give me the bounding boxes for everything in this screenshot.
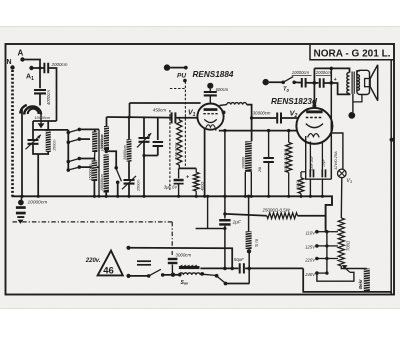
wire contact1 to coil A xyxy=(79,128,99,130)
svg-text:3000cm: 3000cm xyxy=(176,253,192,258)
svg-text:50μF: 50μF xyxy=(234,257,244,262)
svg-text:V3: V3 xyxy=(346,178,353,184)
speaker magnet xyxy=(357,70,370,94)
PU lead node xyxy=(183,79,187,83)
switch contact (tap) xyxy=(114,166,118,170)
V2 anode xyxy=(306,110,322,113)
svg-text:16μF: 16μF xyxy=(321,158,325,167)
choke Sav xyxy=(179,266,200,269)
capacitor 4000cm xyxy=(34,90,46,93)
svg-text:600cm: 600cm xyxy=(216,87,229,92)
node xyxy=(287,129,290,132)
output transformer xyxy=(347,73,350,94)
V2 anode feed xyxy=(313,83,315,108)
svg-text:RENS1823d: RENS1823d xyxy=(271,97,318,106)
ground bus xyxy=(12,196,333,231)
svg-text:PU: PU xyxy=(177,73,186,80)
svg-text:2μF: 2μF xyxy=(232,220,242,226)
screen feed wire xyxy=(223,212,226,215)
tuning capacitor VC2 xyxy=(143,118,145,138)
mains live wire xyxy=(200,267,238,269)
svg-text:20t: 20t xyxy=(258,166,262,173)
svg-text:250cm: 250cm xyxy=(136,180,140,192)
svg-text:T0: T0 xyxy=(283,87,290,93)
wire xyxy=(32,121,34,140)
wire 2uF down xyxy=(224,226,226,269)
svg-text:30000cm: 30000cm xyxy=(253,111,271,116)
title box xyxy=(310,45,394,60)
wire coil to trimmer xyxy=(128,162,130,180)
bias resistor 400Ω xyxy=(195,168,197,172)
AC symbol xyxy=(137,260,151,262)
tap column wire xyxy=(326,232,328,273)
grid resistor 2MΩ xyxy=(178,118,180,120)
svg-text:50000cm: 50000cm xyxy=(100,134,104,149)
node xyxy=(267,129,270,132)
wire cap to V2 grid xyxy=(282,117,298,119)
box capacitor 1 xyxy=(310,169,313,177)
capacitor 20000cm xyxy=(268,131,270,158)
svg-text:125V: 125V xyxy=(305,245,316,250)
tube V2 xyxy=(296,108,332,144)
wire xyxy=(294,81,301,83)
node A/A1 junction xyxy=(38,66,41,69)
svg-text:400Ω: 400Ω xyxy=(201,182,205,191)
wire box to bus xyxy=(309,179,311,196)
capacitor 10000cm xyxy=(302,78,306,88)
wire coil to bus xyxy=(105,193,107,197)
capacitor 2uF xyxy=(219,219,230,222)
wire resistor to ballast xyxy=(341,266,367,269)
svg-text:NORA - G 201 L.: NORA - G 201 L. xyxy=(314,48,391,59)
coil A 100000cm xyxy=(94,129,96,131)
mains wire top xyxy=(126,246,130,250)
svg-text:30000cm: 30000cm xyxy=(123,145,127,160)
svg-text:700Ω: 700Ω xyxy=(346,240,351,251)
node xyxy=(20,195,23,198)
grid wire to V1 xyxy=(175,117,197,119)
V1 anode xyxy=(204,108,218,111)
wire cathode rail drop xyxy=(224,131,226,219)
wire cap to tuner xyxy=(49,68,57,121)
switch contact 4 xyxy=(67,168,71,172)
V1 cathode xyxy=(204,119,216,122)
resistor 25000Ω-0.5W xyxy=(267,213,298,219)
svg-text:Sav: Sav xyxy=(181,280,189,286)
junction on right rail xyxy=(390,138,394,142)
wire tap to contact xyxy=(106,151,116,168)
coil B 150000cm xyxy=(92,161,98,182)
box capacitor 2 xyxy=(322,169,325,177)
capacitor 2000cm xyxy=(44,63,48,73)
switch contact 2 xyxy=(67,140,71,144)
V2 heater xyxy=(308,134,320,138)
block capacitor 10000cm xyxy=(21,196,23,200)
wiper tap wire xyxy=(317,272,354,281)
wire choke to bus xyxy=(244,172,246,197)
svg-text:46: 46 xyxy=(103,265,114,276)
coil arrow to tuned circuit xyxy=(40,115,42,124)
antenna coupling coil xyxy=(24,107,41,115)
wire tube pin to cap xyxy=(309,142,311,170)
wire xyxy=(306,82,313,84)
svg-text:25000Ω-0.5W: 25000Ω-0.5W xyxy=(262,208,291,213)
resistor 700Ω xyxy=(338,218,344,266)
svg-text:Bekr: Bekr xyxy=(358,279,363,289)
wire switch rail xyxy=(98,129,100,196)
V1 top cap terminal xyxy=(207,83,213,89)
wire xyxy=(33,144,49,154)
node coil tap xyxy=(105,150,109,154)
RF choke xyxy=(227,103,247,105)
wire lamp down xyxy=(340,178,343,218)
wire coil B to bus xyxy=(93,181,95,196)
svg-text:2MΩ-0.5W: 2MΩ-0.5W xyxy=(175,142,179,161)
wire contact4 stub xyxy=(79,166,99,168)
wire VC2 to bus xyxy=(143,142,145,196)
wire Sm down xyxy=(248,251,250,283)
wire resistor right xyxy=(298,215,326,217)
wire anode junction xyxy=(250,116,253,119)
selector arrow xyxy=(345,268,350,273)
speaker cone xyxy=(370,65,378,101)
anode rail wire xyxy=(330,68,332,179)
svg-text:220v.: 220v. xyxy=(85,258,101,264)
svg-text:RENS1884: RENS1884 xyxy=(193,70,234,79)
wire cap to tube xyxy=(209,95,211,104)
switch contact (Sav out) xyxy=(200,272,204,276)
antenna lead-in (hatched) xyxy=(11,70,14,196)
V1 pin stub xyxy=(215,128,217,131)
svg-text:S m: S m xyxy=(254,239,259,247)
V1 anode pin xyxy=(222,111,226,115)
field coil Sm xyxy=(248,196,250,231)
svg-text:+: + xyxy=(334,77,337,83)
tube V1 xyxy=(197,104,223,130)
chassis blob xyxy=(348,112,355,119)
wire choke down xyxy=(247,105,252,142)
node xyxy=(223,129,226,132)
wire bias xyxy=(179,167,197,169)
svg-text:N: N xyxy=(7,59,12,66)
wire anode to choke xyxy=(219,104,226,107)
svg-text:220V: 220V xyxy=(304,257,316,262)
coil 150cm xyxy=(47,121,49,130)
wire tube pin to cap 2 xyxy=(321,143,323,170)
svg-text:450cm: 450cm xyxy=(153,108,167,113)
svg-text:10000cm: 10000cm xyxy=(292,70,310,75)
svg-text:A: A xyxy=(18,49,24,58)
pickup PU terminal xyxy=(164,64,170,70)
secondary top wire xyxy=(357,71,360,75)
speaker voice coil xyxy=(365,79,371,87)
capacitor 2000cm (output) xyxy=(314,82,318,84)
svg-text:150000cm: 150000cm xyxy=(88,164,92,181)
switch T0 xyxy=(281,81,285,85)
V1 grid xyxy=(203,113,217,115)
switch contact 3 xyxy=(67,160,71,164)
switch contact 1 xyxy=(67,131,71,135)
V2 cathode xyxy=(306,124,323,128)
svg-text:3μF 6V: 3μF 6V xyxy=(164,185,179,190)
mains switch Sw xyxy=(147,274,151,278)
svg-text:100000cm: 100000cm xyxy=(100,174,104,191)
coil ground side wire xyxy=(21,109,23,196)
speaker link xyxy=(353,95,362,102)
wire y103 xyxy=(130,102,201,104)
coil 100000cm lower xyxy=(104,155,109,193)
resistor 6000Ω-0.25W xyxy=(288,131,290,143)
node xyxy=(223,195,226,198)
triangle 46 xyxy=(98,251,123,276)
V2 socket box xyxy=(306,136,332,179)
wire tuned circuit to bus xyxy=(37,154,39,196)
node xyxy=(37,195,40,198)
AF choke 100000 xyxy=(245,141,252,172)
svg-text:6000Ω-0.25W: 6000Ω-0.25W xyxy=(284,150,288,172)
secondary return xyxy=(352,94,354,113)
V1 cathode wire xyxy=(204,128,206,196)
node xyxy=(230,267,234,271)
svg-text:4000cm: 4000cm xyxy=(46,90,51,105)
border frame xyxy=(6,44,395,295)
shield line (dash-dot) xyxy=(13,221,173,223)
primary bottom wire xyxy=(331,83,349,94)
wire y103 drop xyxy=(129,103,131,117)
lamp V3 xyxy=(338,169,347,178)
wire down to 4000cm cap xyxy=(39,68,41,88)
wire xyxy=(196,228,225,230)
svg-text:600Ω: 600Ω xyxy=(296,181,300,190)
cathode line wire xyxy=(219,130,297,132)
svg-text:+: + xyxy=(186,175,189,181)
shield (dashed) xyxy=(169,110,171,190)
variable capacitor VC1 xyxy=(28,140,39,144)
svg-text:10000cm: 10000cm xyxy=(35,116,51,120)
wire to transformer xyxy=(324,82,331,84)
svg-text:150cm: 150cm xyxy=(53,140,57,151)
wire contact2 stub xyxy=(79,138,90,140)
wire A to cap xyxy=(23,60,41,69)
coil 30000cm xyxy=(128,117,130,139)
selector left wire xyxy=(303,268,391,292)
primary top wire xyxy=(314,68,349,72)
node Sm bottom xyxy=(247,249,251,253)
svg-text:10000cm: 10000cm xyxy=(28,200,48,206)
svg-text:110V: 110V xyxy=(306,231,317,236)
wire coil to switch xyxy=(33,129,68,131)
svg-text:2000cm: 2000cm xyxy=(51,62,68,67)
svg-text:70NF-3SF: 70NF-3SF xyxy=(310,155,314,172)
capacitor 30000cm xyxy=(277,113,281,124)
wire trimmer to bus xyxy=(128,184,130,196)
trimmer capacitor 250cm xyxy=(124,180,135,184)
svg-text:2000cm: 2000cm xyxy=(315,70,331,75)
capacitor 50uF xyxy=(240,263,244,273)
wire A1 to cap xyxy=(32,67,44,69)
wire coil A-B link xyxy=(93,152,95,161)
supply rail wire (right) xyxy=(390,60,392,294)
svg-text:12V/0.25A: 12V/0.25A xyxy=(333,151,338,170)
ballast Bekr xyxy=(364,269,370,292)
wire box to bus 2 xyxy=(321,179,323,196)
node anode junction xyxy=(313,81,317,85)
wire contact to bus xyxy=(117,182,119,196)
wire stub xyxy=(207,196,209,228)
grid circuit wire xyxy=(107,116,171,119)
wire padder link xyxy=(144,155,158,157)
switch contact xyxy=(215,274,219,278)
mains wire bottom xyxy=(126,274,130,278)
resistor 600Ω xyxy=(301,171,306,173)
wire cap to coil xyxy=(39,94,41,106)
wire xyxy=(163,274,182,276)
padder capacitor xyxy=(157,118,159,140)
wire anode up xyxy=(313,68,315,83)
capacitor 3uF 6V xyxy=(178,168,180,178)
svg-text:100000: 100000 xyxy=(242,157,246,169)
wire switch return xyxy=(226,283,250,285)
capacitor 600cm xyxy=(204,92,217,95)
coil 50000cm xyxy=(106,117,108,126)
switch bar wire xyxy=(67,130,69,172)
tuned circuit top wire xyxy=(33,120,57,122)
wire to lamp xyxy=(331,133,343,169)
V2 grid xyxy=(306,117,323,119)
svg-text:240V: 240V xyxy=(304,272,316,277)
terminal T0 xyxy=(263,79,269,85)
V1 heater xyxy=(206,125,215,128)
wire contact3 to coil B xyxy=(79,159,94,161)
